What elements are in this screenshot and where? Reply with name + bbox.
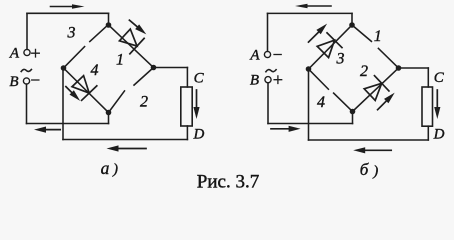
arm 1 wire upper segment (b) <box>352 25 371 41</box>
polarity - at A (b) <box>274 54 281 56</box>
current arrow at VD1 (a) <box>127 18 148 37</box>
current arrow through load (a) <box>193 90 199 119</box>
diode VD4 wire (a) <box>64 68 109 113</box>
current arrow through load (b) <box>434 90 440 119</box>
wire down to resistor top (b) <box>427 68 429 87</box>
bottom rail (b) <box>309 139 429 141</box>
svg-text:B: B <box>9 74 18 90</box>
wire A up to top rail (b) <box>267 13 269 51</box>
node bottom (b) <box>350 109 356 115</box>
node top (b) <box>349 22 355 28</box>
svg-text:): ) <box>372 164 378 180</box>
arm 4 wire lower segment (b) <box>334 93 353 111</box>
wire left node down to rail (a) <box>62 68 64 140</box>
node right (b) <box>396 65 402 71</box>
wire top rail down to top node (b) <box>351 13 353 25</box>
current arrow on top rail (b) <box>295 4 331 9</box>
ac source tilde (b) <box>266 70 276 72</box>
wire right node to C corner (a) <box>154 67 188 69</box>
resistor load (a) <box>181 87 192 126</box>
terminal A (b) <box>264 51 270 57</box>
arm 3 wire lower segment (a) <box>64 47 85 68</box>
diode VD2 (b) <box>362 76 388 103</box>
arm 2 wire lower segment (a) <box>109 91 125 113</box>
current arrow return to B (a) <box>34 127 60 133</box>
svg-text:3: 3 <box>67 25 76 42</box>
wire bottom node down (b) <box>352 112 354 124</box>
arm 2 wire upper segment (a) <box>134 68 154 86</box>
svg-text:4: 4 <box>317 94 325 111</box>
svg-text:A: A <box>9 46 20 62</box>
svg-text:C: C <box>434 70 445 86</box>
node right (a) <box>151 65 157 71</box>
terminal A (a) <box>24 49 30 55</box>
diode VD3 wire (b) <box>309 25 353 69</box>
wire right node to C corner (b) <box>399 67 429 69</box>
svg-text:2: 2 <box>140 94 148 111</box>
diode VD3 (b) <box>315 33 342 59</box>
wire left node down to rail (b) <box>308 69 310 140</box>
wire bottom node down (a) <box>108 113 110 124</box>
wire resistor bottom to rail (b) <box>427 126 429 140</box>
node bottom (a) <box>106 110 112 116</box>
node top (a) <box>106 22 112 28</box>
wire top rail (a) <box>27 12 109 14</box>
svg-text:C: C <box>194 70 205 86</box>
svg-text:2: 2 <box>360 63 368 80</box>
ac source tilde (a) <box>21 69 31 71</box>
svg-text:D: D <box>433 126 445 142</box>
svg-text:1: 1 <box>116 51 124 68</box>
svg-text:D: D <box>192 126 204 142</box>
arm 3 wire upper segment (a) <box>90 25 108 42</box>
node left (a) <box>61 65 67 71</box>
svg-text:B: B <box>250 73 259 89</box>
current arrow at VD3 (b) <box>306 21 329 44</box>
polarity + at B (b) <box>274 76 282 84</box>
polarity - at B (a) <box>32 79 39 81</box>
arm 1 wire lower segment (b) <box>378 48 398 68</box>
arm 4 wire upper segment (b) <box>309 69 329 89</box>
diode VD4 (a) <box>70 74 97 100</box>
current arrow on bottom rail (a) <box>107 145 147 151</box>
node left (b) <box>306 66 312 72</box>
wire B down (b) <box>267 83 269 124</box>
terminal B (b) <box>265 77 271 83</box>
svg-text:а: а <box>101 158 110 178</box>
current arrow at VD4 (a) <box>64 84 83 103</box>
current arrow on bottom rail (b) <box>353 147 391 153</box>
wire A up to top rail (a) <box>26 13 28 49</box>
svg-text:): ) <box>112 161 118 177</box>
current arrow on top rail (a) <box>51 4 85 9</box>
current arrow from B (b) <box>271 126 301 132</box>
resistor load (b) <box>422 87 433 126</box>
diode VD1 wire (a) <box>109 25 154 68</box>
svg-text:A: A <box>249 47 260 63</box>
wire top rail (b) <box>268 12 353 14</box>
polarity + at A (a) <box>32 49 40 57</box>
svg-text:4: 4 <box>91 62 99 79</box>
wire resistor bottom to rail (a) <box>186 126 188 140</box>
wire top rail down to top node (a) <box>108 13 110 25</box>
wire down to resistor top (a) <box>186 68 188 88</box>
wire bottom node to B (a) <box>27 123 109 125</box>
svg-text:б: б <box>360 160 369 179</box>
bottom rail (a) <box>63 139 187 141</box>
svg-text:1: 1 <box>374 28 382 45</box>
wire B down (a) <box>26 84 28 123</box>
diode VD2 wire (b) <box>353 68 399 112</box>
wire bottom node to B (b) <box>268 123 353 125</box>
svg-text:3: 3 <box>336 51 345 68</box>
svg-text:Рис. 3.7: Рис. 3.7 <box>197 172 259 193</box>
current arrow at VD2 (b) <box>375 90 396 111</box>
diode VD1 (a) <box>118 27 144 54</box>
terminal B (a) <box>23 78 29 84</box>
